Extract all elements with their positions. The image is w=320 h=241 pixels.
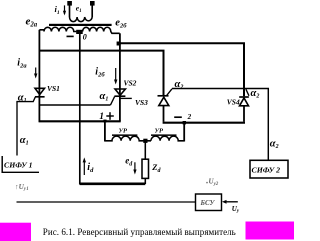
svg-text:БСУ: БСУ [200,199,216,207]
transformer T secondary winding left half [39,27,76,31]
wire node 2 down to reactor [183,123,185,142]
node 1 junction blob [103,120,106,123]
current label i1 with down arrow [55,4,67,16]
thyristor VS4 [239,89,249,122]
wire VS1 column from secondary left end [38,30,40,122]
wire VS2 column [119,33,121,121]
transformer T core bar [49,24,112,26]
block SIFU2 [250,160,288,178]
voltage label ed with down arrow [125,156,136,175]
wire VS1 cathode tap line [39,104,110,106]
transformer T secondary winding right half [83,27,120,33]
wire VS1 gate to SIFU1 [16,102,18,156]
equalizing reactor right winding [151,134,184,140]
svg-text:СИФУ 1: СИФУ 1 [4,161,33,170]
control line to BSU [17,201,196,203]
reactor center tap node [143,139,147,143]
magenta block bottom right [246,222,295,240]
label 1 plus [99,112,114,122]
current label id with up arrow [83,157,94,175]
label Uy2 [206,182,207,183]
svg-text:Рис. 6.1. Реверсивный управляе: Рис. 6.1. Реверсивный управляемый выпрям… [43,227,236,237]
wire center tap vertical down to load [79,34,81,185]
wire reactor tap to resistor [144,141,146,159]
load resistor Zd [142,159,149,178]
node 2 junction blob [183,121,186,124]
junction dot on VS2 column [117,42,121,46]
svg-text:2: 2 [187,113,192,121]
svg-text:VS4: VS4 [227,98,240,107]
label minus 2 [174,113,191,121]
current label i2a with down arrow [17,58,37,79]
equalizing reactor left winding [105,134,151,140]
wire resistor bottom [144,178,146,184]
load bottom return wire [80,183,146,186]
thyristor VS3 [158,89,172,122]
minus sign at center tap [67,35,74,37]
wire second bus to VS3 [39,51,163,96]
transformer T primary winding [70,17,93,22]
thyristor VS1 [16,88,44,101]
anode bus node 2 [163,122,245,124]
wire with arrow into BSU right side [222,200,238,204]
magenta block bottom left [0,223,31,241]
svg-text:УР: УР [155,128,165,135]
transformer T primary right terminal [90,1,95,17]
block BSU [196,194,222,211]
svg-text:СИФУ 2: СИФУ 2 [252,165,281,174]
svg-text:0: 0 [83,32,87,41]
cathode bus node 1 [39,120,121,122]
wire gate line to SIFU2 [172,89,268,161]
transformer T primary left terminal [67,1,72,17]
wire top bus to VS4 [120,43,244,96]
svg-text:1: 1 [99,112,104,122]
block SIFU1 [2,156,39,172]
svg-text:VS2: VS2 [124,79,137,88]
svg-text:VS3: VS3 [135,98,148,107]
transformer T center tap node 0 [76,30,83,34]
thyristor VS2 [111,89,132,105]
current label i2b with down arrow [95,67,117,85]
wire node 1 down to reactor [104,121,106,141]
svg-text:УР: УР [119,128,129,135]
svg-text:VS1: VS1 [47,84,60,93]
